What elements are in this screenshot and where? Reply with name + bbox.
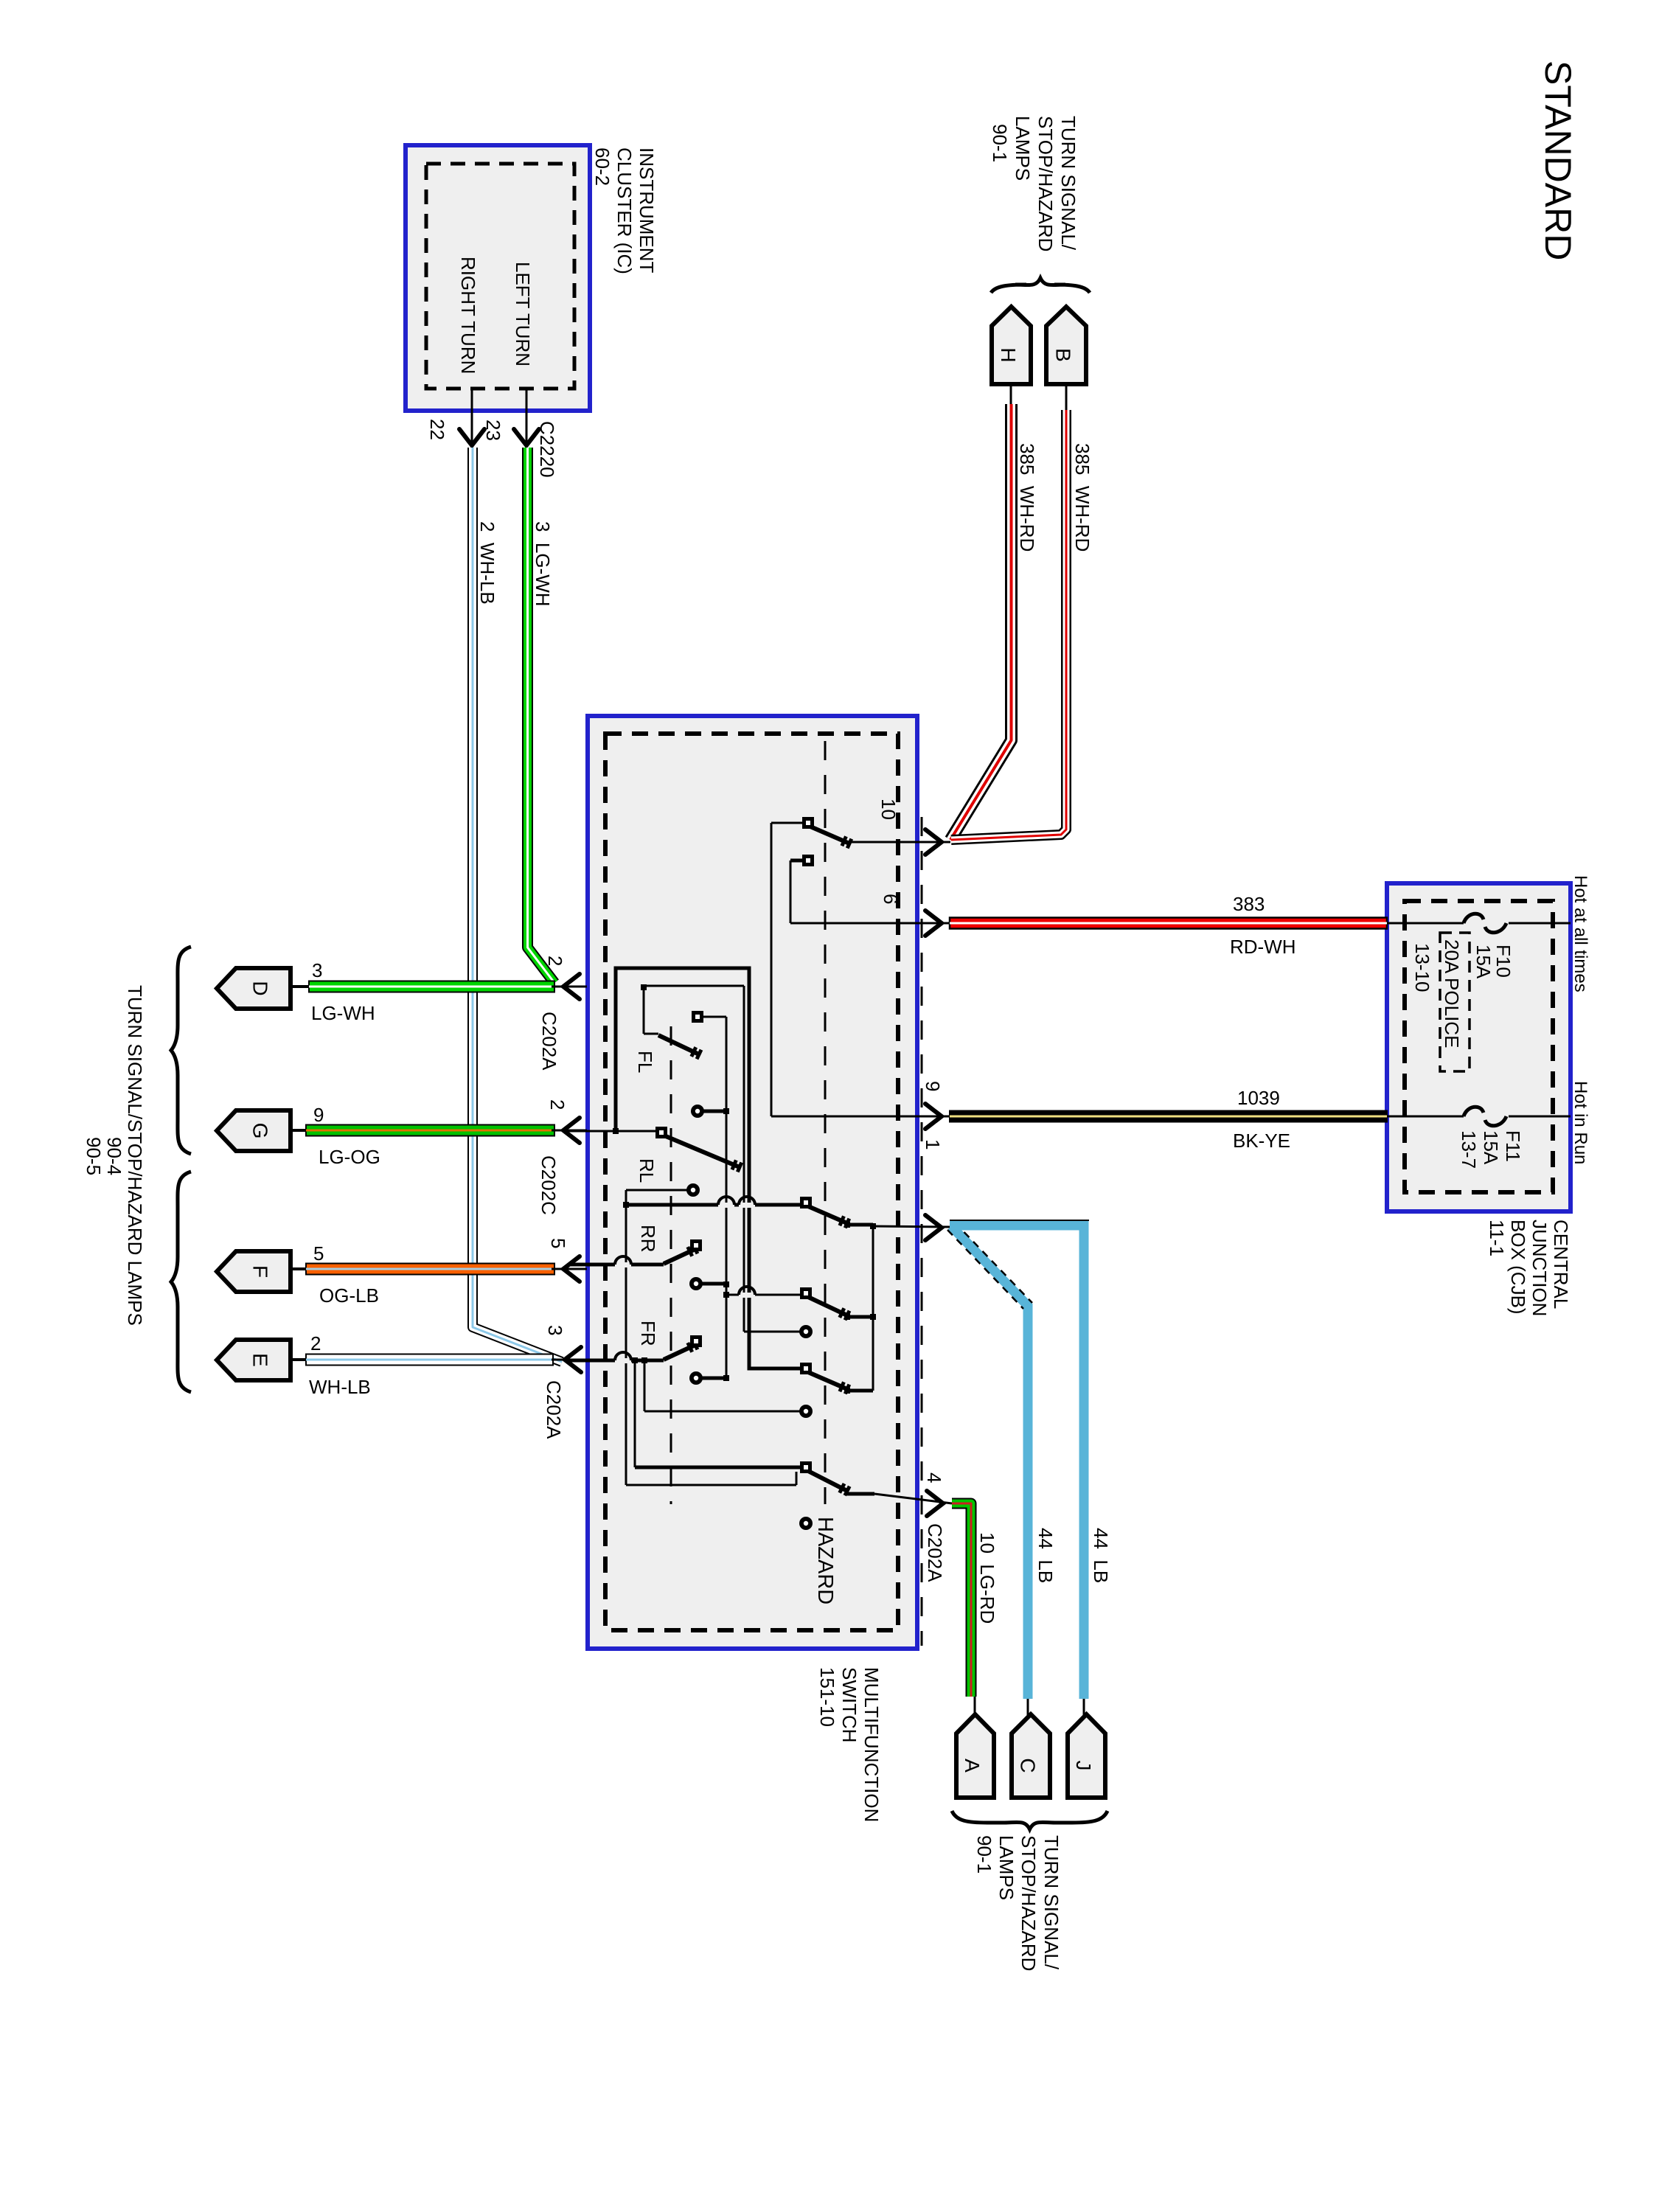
connector E [217,1340,291,1380]
D stub [291,985,310,988]
wire 385 WH-RD from H [950,404,1012,840]
svg-text:60-2: 60-2 [591,147,613,186]
switch FR fixed circle [689,1371,703,1385]
svg-text:9: 9 [313,1104,324,1126]
switch RR (left) pivot square [690,1239,702,1251]
svg-text:C202A: C202A [924,1523,946,1582]
svg-text:G: G [249,1123,272,1139]
svg-text:385 WH-RD: 385 WH-RD [1071,443,1093,552]
RR-common junction dot [623,1202,629,1208]
instrument cluster (IC) box [406,145,590,411]
svg-text:C202A: C202A [543,1380,565,1439]
svg-text:RIGHT TURN: RIGHT TURN [457,257,479,374]
svg-text:CENTRAL: CENTRAL [1550,1220,1572,1309]
dashed connector line C202 (right of box) [921,817,923,1646]
switch RR (left) hop over v849 [615,1262,631,1267]
switch FR feed from E-row [568,1359,664,1363]
vertical wire v1184 (lamp output bus) [872,1226,874,1391]
svg-text:WH-LB: WH-LB [309,1376,371,1398]
wire 44 LB (J) [950,1225,1084,1699]
wire 385 WH-RD from B [951,410,1066,840]
wire 3 LG-WH (D row) [309,981,554,992]
switch RR (left) arm [664,1249,695,1264]
J stub [1083,1699,1085,1716]
hazard pin4 output [847,1492,874,1496]
svg-text:90-1: 90-1 [973,1835,995,1874]
svg-text:LAMPS: LAMPS [995,1835,1018,1900]
dashed mechanical link line (center column) [824,741,827,1504]
svg-text:INSTRUMENT: INSTRUMENT [636,147,658,274]
svg-text:13-7: 13-7 [1458,1130,1480,1169]
fuse F11 symbol [1464,1107,1506,1126]
pin 4 arrow [927,1491,943,1516]
switch FL fixed contact circle [691,1105,704,1118]
switch FR hop over v849 [615,1358,631,1363]
svg-text:6: 6 [880,894,902,904]
B stub [1065,384,1068,410]
svg-text:LG-WH: LG-WH [311,1002,375,1024]
switch FR arm [664,1345,695,1360]
D row arrow [552,986,587,988]
hazard fixed circle [799,1517,813,1530]
wire 9 LG-OG (G row) [306,1125,554,1136]
svg-text:H: H [997,347,1020,362]
H stub [1010,384,1012,407]
svg-text:TURN SIGNAL/STOP/HAZARD LAMPS: TURN SIGNAL/STOP/HAZARD LAMPS [124,985,146,1326]
fixed circle 1806 [799,1325,813,1338]
wire 44 LB (C) [951,1226,1028,1699]
brace for D-G [171,947,191,1154]
svg-text:E: E [249,1353,272,1367]
switch RL feed line [568,1130,656,1133]
CJB inner dashed box [1405,901,1553,1192]
connector B [1046,307,1086,384]
svg-text:15A: 15A [1480,1130,1502,1165]
svg-text:LEFT TURN: LEFT TURN [512,262,534,366]
switch RL junction dot [613,1128,619,1134]
svg-text:STANDARD: STANDARD [1537,60,1579,260]
A stub [974,1697,976,1716]
svg-text:Hot at all times: Hot at all times [1571,875,1590,992]
svg-text:HAZARD: HAZARD [813,1517,837,1604]
svg-text:F10: F10 [1492,945,1514,978]
wire 1039 BK-YE [950,1111,1387,1122]
svg-text:RR: RR [637,1225,659,1253]
connector A [956,1714,994,1798]
pin10 output line [849,841,950,844]
switch RR (left) feed from F-row [568,1263,664,1267]
vertical wire v849 (RL fixed net) [625,1190,627,1485]
svg-text:STOP/HAZARD: STOP/HAZARD [1034,116,1057,251]
switch frame thick path [616,968,801,1368]
svg-text:20A POLICE: 20A POLICE [1441,939,1463,1048]
svg-text:LAMPS: LAMPS [1012,116,1034,181]
wire 2 WH-LB from IC [473,448,562,1362]
E stub [291,1358,308,1361]
svg-text:151-10: 151-10 [816,1667,838,1727]
dashed mechanical link line (left column) [670,1026,672,1504]
svg-text:OG-LB: OG-LB [319,1284,379,1307]
brace over H and B [991,278,1090,293]
svg-text:2: 2 [546,1099,568,1110]
svg-text:5: 5 [547,1238,569,1248]
svg-text:15A: 15A [1472,945,1495,979]
switch FR pivot square [690,1335,702,1347]
svg-text:90-5: 90-5 [83,1137,105,1175]
contact hazard pivot square [800,1461,812,1473]
central junction box (CJB) [1387,883,1571,1211]
fuse F10 internal wire [1387,922,1464,925]
connector F [217,1251,291,1292]
connector G [217,1110,291,1151]
contact A feed [726,1294,801,1296]
contact A arm [808,1297,847,1315]
contact RR-common arm [808,1206,847,1223]
pin10 feeder v1046 [771,823,773,1116]
svg-text:B: B [1052,348,1075,362]
svg-text:FL: FL [634,1051,656,1073]
E row arrow [552,1359,587,1361]
svg-text:3: 3 [312,959,322,981]
switch FL pivot square [692,1011,703,1023]
contact B pivot square [800,1363,812,1374]
brace for F-E [171,1172,191,1392]
svg-text:90-4: 90-4 [103,1137,125,1175]
svg-text:SWITCH: SWITCH [838,1667,860,1743]
svg-text:C202C: C202C [538,1155,560,1215]
multifunction switch box [588,716,917,1649]
contact A feed hop [739,1293,755,1298]
IC pin 22 wire stub and arrow [471,389,473,442]
svg-text:BOX (CJB): BOX (CJB) [1507,1220,1529,1315]
svg-text:J: J [1072,1761,1095,1771]
vertical wire v861 (hazard feed) [634,1360,636,1467]
wire 5 OG-LB (F row) [306,1264,554,1275]
svg-text:C202A: C202A [538,1012,560,1071]
svg-text:TURN SIGNAL/: TURN SIGNAL/ [1040,1835,1062,1970]
connector J [1068,1714,1105,1798]
G stub [291,1129,308,1132]
fuse F10 symbol [1464,914,1506,933]
pin6 feeder [790,860,792,923]
svg-text:22: 22 [426,419,448,440]
svg-text:FR: FR [637,1321,659,1346]
RR-common feed hops [718,1203,734,1208]
svg-text:F: F [249,1265,272,1278]
switch RR (left) fixed circle [689,1277,703,1290]
svg-text:BK-YE: BK-YE [1233,1130,1290,1152]
svg-text:11-1: 11-1 [1486,1220,1508,1256]
contact A output [847,1315,873,1319]
brace under A C J [952,1811,1107,1829]
svg-text:F11: F11 [1502,1130,1524,1162]
svg-text:RL: RL [636,1158,658,1183]
svg-text:JUNCTION: JUNCTION [1528,1220,1551,1316]
pin 10 arrow [925,829,942,855]
svg-text:44 LB: 44 LB [1090,1528,1112,1583]
IC pin 23 wire stub and arrow [526,389,528,442]
contact RR-common feed [626,1203,801,1207]
switch RL arm [666,1136,740,1167]
wire D-row extension to v1010 [644,985,744,987]
svg-text:44 LB: 44 LB [1034,1528,1057,1583]
svg-text:A: A [961,1759,984,1773]
svg-text:2: 2 [310,1332,321,1354]
C stub [1027,1699,1029,1716]
svg-text:383: 383 [1233,893,1265,915]
svg-text:MULTIFUNCTION: MULTIFUNCTION [860,1667,883,1822]
svg-text:C2220: C2220 [536,421,558,478]
contact B output [847,1389,873,1393]
fuse F11 internal wire [1387,1116,1464,1118]
switch FR junction dots [632,1357,638,1363]
connector D [217,968,291,1009]
contact pin10 arm [810,827,849,844]
svg-text:3: 3 [544,1325,566,1335]
svg-text:STOP/HAZARD: STOP/HAZARD [1018,1835,1040,1971]
svg-text:9: 9 [922,1081,944,1091]
pin 9 arrow [925,1104,942,1129]
pin 6 arrow [925,911,942,936]
vertical wire v874 (to circle 1914) [644,1360,646,1411]
svg-text:LG-OG: LG-OG [319,1146,380,1168]
switch FL arm [658,1035,699,1054]
svg-text:2: 2 [544,956,566,966]
fixed circle 1914 [799,1405,813,1418]
svg-text:1: 1 [922,1139,944,1150]
connector C [1012,1714,1050,1798]
svg-text:385 WH-RD: 385 WH-RD [1016,443,1038,552]
contact hazard arm [808,1471,847,1491]
svg-text:90-1: 90-1 [989,124,1011,162]
svg-text:C: C [1017,1758,1040,1773]
svg-text:10: 10 [877,799,900,820]
svg-text:5: 5 [313,1242,324,1265]
switch FL junction dot [641,984,647,990]
wire 2 WH-LB (E row) [306,1354,553,1366]
RR-common output [847,1223,873,1227]
F stub [291,1267,308,1270]
svg-text:D: D [249,981,272,995]
svg-text:10 LG-RD: 10 LG-RD [976,1532,998,1624]
switch RL pivot square [655,1127,667,1138]
contact pin10 pivot square [802,817,814,829]
vertical wire v985 (FL net) [726,1017,728,1378]
switch RL fixed contact circle [686,1183,700,1197]
wire 3 LG-WH from IC [528,448,555,983]
svg-text:4: 4 [923,1472,945,1483]
20A POLICE dashed box [1440,933,1470,1071]
svg-text:3 LG-WH: 3 LG-WH [532,521,554,607]
MF switch inner dashed box [605,734,898,1630]
lamp bus arrow [925,1215,942,1240]
contact A pivot square [800,1287,812,1299]
svg-text:CLUSTER (IC): CLUSTER (IC) [613,147,636,274]
svg-text:TURN SIGNAL/: TURN SIGNAL/ [1057,116,1079,251]
G row arrow [552,1130,587,1132]
F row arrow [552,1268,587,1270]
contact B arm [808,1372,847,1389]
svg-text:13-10: 13-10 [1411,943,1433,992]
svg-text:1039: 1039 [1237,1087,1280,1109]
svg-text:Hot in Run: Hot in Run [1571,1081,1590,1164]
contact RR-common pivot square [800,1197,812,1208]
svg-text:RD-WH: RD-WH [1230,936,1296,958]
connector H [992,307,1031,384]
wire 383 RD-WH [950,918,1387,929]
svg-text:2 WH-LB: 2 WH-LB [476,521,498,605]
switch FL feed drop [643,987,645,1034]
wire 10 LG-RD [952,1503,971,1697]
IC inner dashed box [426,164,574,389]
contact pin6 square [802,855,814,866]
